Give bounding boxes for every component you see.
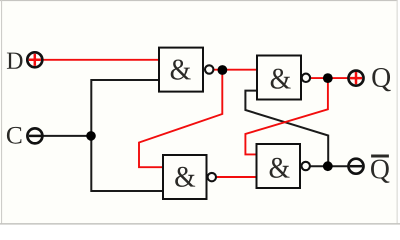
terminal D (high)	[27, 52, 42, 67]
wire: U2 output to U4 lower input (red)	[216, 176, 259, 178]
wire: C input to junction	[43, 135, 91, 137]
junction node Q-bar	[323, 161, 333, 171]
wire: U1 output to U3 upper input (red)	[212, 69, 258, 71]
junction node S (U1 output)	[218, 65, 228, 75]
junction node Q	[323, 73, 333, 83]
junction node C branch	[86, 131, 96, 141]
wire: C junction up to U1 lower input	[91, 80, 160, 136]
wire: Q-bar feedback to U3 lower input	[245, 91, 328, 167]
terminal Q (high)	[349, 71, 364, 86]
nand gate U4	[257, 144, 310, 188]
label C	[7, 127, 22, 144]
label Q	[372, 68, 390, 91]
wire: U1 output branch down to U2 upper input (red)	[139, 70, 222, 167]
wire: U3 output to Q terminal (red)	[310, 77, 350, 79]
terminal C (low)	[27, 128, 42, 143]
wire: Q feedback to U4 upper input (red)	[245, 78, 328, 154]
nand gate U1	[159, 48, 213, 92]
label Q-bar	[371, 156, 389, 183]
nand gate U3	[257, 56, 310, 100]
nand gate U2	[163, 155, 216, 199]
wire: U4 output to Q-bar terminal	[310, 165, 350, 167]
terminal Q-bar (low)	[349, 159, 364, 174]
wire: D input to U1 upper input (high, red)	[43, 59, 160, 61]
wire: C junction down to U2 lower input	[91, 136, 164, 191]
label D	[7, 53, 23, 69]
